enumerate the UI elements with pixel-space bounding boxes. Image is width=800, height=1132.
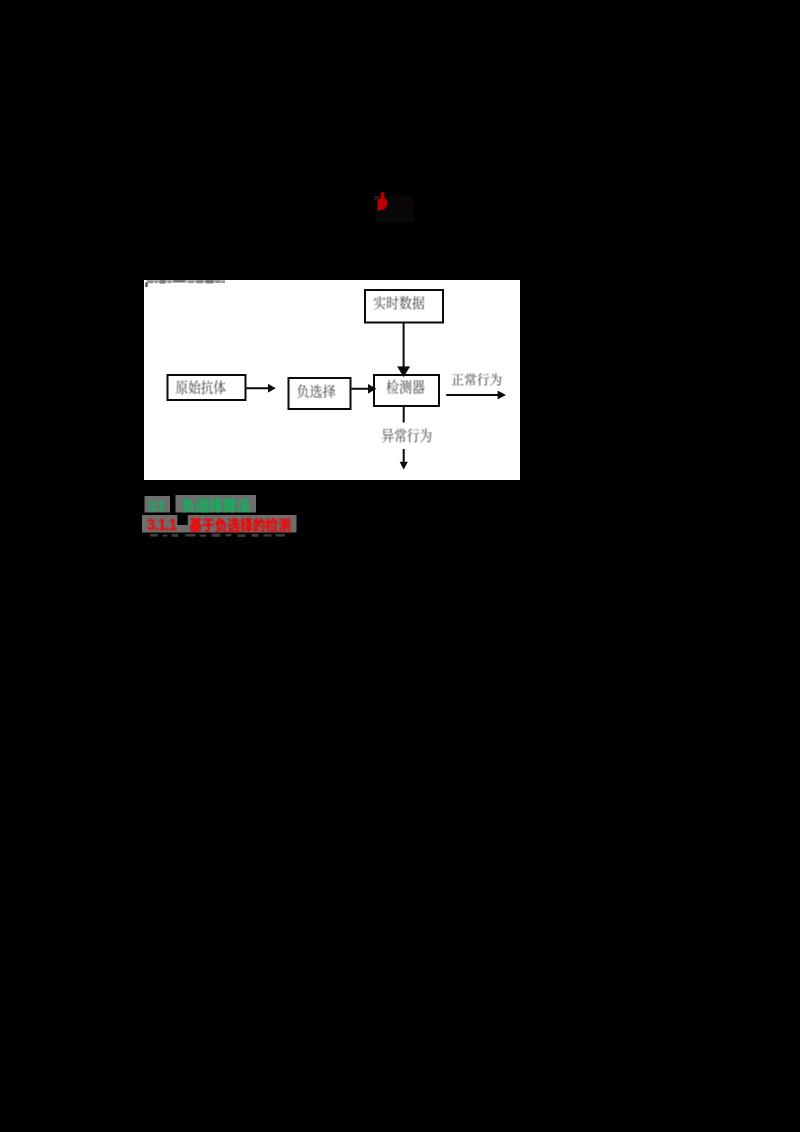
svg-text:3.1.1: 3.1.1 [147,517,178,534]
svg-text:3.1: 3.1 [148,498,166,515]
